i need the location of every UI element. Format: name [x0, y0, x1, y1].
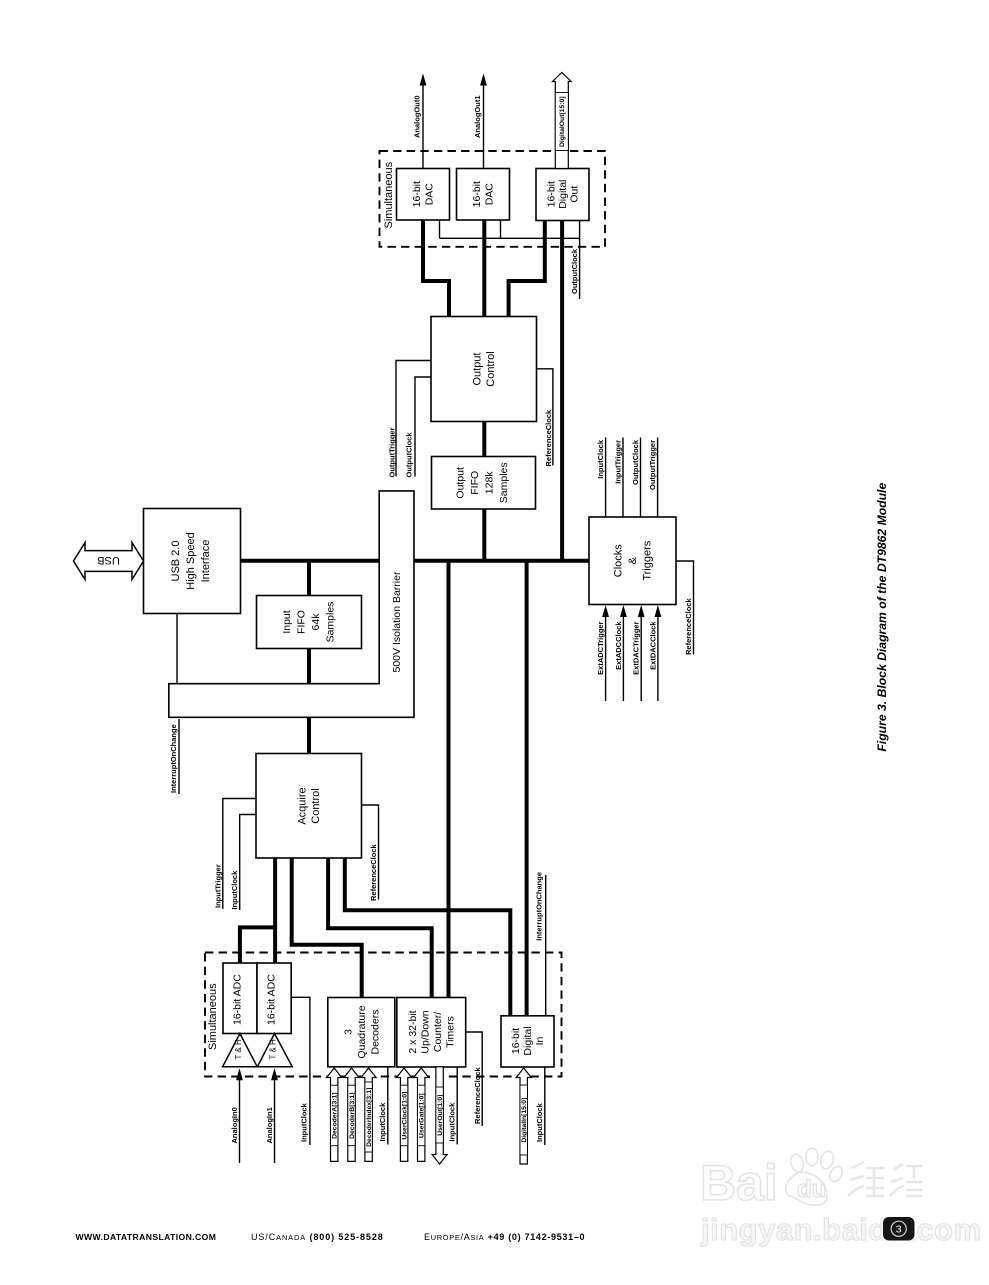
svg-text:Bai: Bai: [700, 1155, 778, 1211]
wire main bus to Input FIFO (thick): [307, 561, 311, 596]
svg-text:DigitalOut[15:0]: DigitalOut[15:0]: [559, 96, 566, 147]
arrow ExtDACClock into Clocks: [655, 605, 662, 701]
wire Acquire Control to Quadrature Decoders (thick): [292, 858, 362, 998]
svg-text:High Speed: High Speed: [185, 532, 197, 590]
svg-text:AnalogOut0: AnalogOut0: [413, 96, 422, 139]
label OutputClock left of Output Control: [405, 432, 414, 478]
block 16-bit Digital Out: [536, 169, 589, 221]
wire main bus to Digital In (thick): [525, 561, 529, 1016]
svg-text:16-bit ADC: 16-bit ADC: [266, 974, 278, 1025]
wire USB interface to isolation barrier (InterruptOnChange): [176, 614, 178, 684]
block USB 2.0 High Speed Interface: [144, 509, 241, 614]
block 16-bit ADC #1: [223, 963, 257, 1034]
wire InputTrigger stub from Acquire Control: [223, 799, 256, 909]
svg-text:InputClock: InputClock: [596, 439, 605, 479]
svg-text:ReferenceClock: ReferenceClock: [544, 409, 553, 467]
svg-text:EUROPE/ASIA +49 (0) 7142-9531–: EUROPE/ASIA +49 (0) 7142-9531–0: [424, 1232, 585, 1242]
wire InterruptOnChange stub below barrier: [178, 719, 180, 794]
label AnalogOut0: [413, 96, 422, 139]
label ReferenceClock right of Clocks: [684, 597, 693, 655]
footer Europe/Asia phone: [424, 1232, 585, 1242]
svg-text:InputClock: InputClock: [300, 1102, 309, 1142]
svg-text:ReferenceClock: ReferenceClock: [684, 597, 693, 655]
svg-text:Timers: Timers: [445, 1016, 457, 1048]
arrow ExtDACTrigger into Clocks: [638, 605, 645, 701]
label InterruptOnChange near Digital In: [535, 872, 544, 941]
svg-text:128k: 128k: [484, 471, 496, 495]
label AnalogIn0: [230, 1107, 239, 1143]
svg-text:UserGate[1:0]: UserGate[1:0]: [419, 1093, 426, 1138]
svg-text:Interface: Interface: [200, 540, 212, 583]
wire Acquire Control to ADC0 (thick): [273, 858, 277, 963]
svg-text:OutputClock: OutputClock: [405, 432, 414, 478]
arrow AnalogOut0: [420, 74, 427, 169]
svg-text:DigitalIn[15:0]: DigitalIn[15:0]: [521, 1098, 528, 1143]
svg-text:OutputClock: OutputClock: [570, 248, 579, 294]
wire Digital Out to main bus (thick): [560, 220, 564, 561]
svg-text:3: 3: [342, 1029, 354, 1035]
svg-text:UserOut[1:0]: UserOut[1:0]: [437, 1095, 444, 1136]
block Acquire Control: [256, 754, 362, 859]
label InputClock left of Acquire Control: [230, 870, 239, 910]
label OutputTrigger left of Output Control: [388, 427, 397, 477]
wire main bus USB to Clocks and Triggers (thick): [241, 559, 590, 563]
svg-text:16-bit: 16-bit: [510, 1028, 522, 1054]
svg-text:Quadrature: Quadrature: [356, 1005, 368, 1058]
wire InputClock stub below Quadrature Decoders: [387, 1067, 389, 1145]
svg-text:USB 2.0: USB 2.0: [170, 541, 182, 582]
wire InputClock stub above Clocks: [605, 438, 607, 518]
label InputClock below Counter Timers: [448, 1102, 457, 1142]
label AnalogIn1: [265, 1107, 274, 1143]
svg-text:ExtDACClock: ExtDACClock: [648, 621, 657, 670]
svg-text:3: 3: [896, 1224, 902, 1236]
label OutputClock above Clocks: [631, 439, 640, 485]
wire DAC1 to Output Control (thick elbow): [423, 220, 449, 317]
wire OutputClock stub from Output Control: [415, 377, 431, 477]
wire Acquire Control to Digital In (thick): [345, 858, 511, 1016]
wire Acquire Control to ADC1 (thick elbow): [240, 925, 275, 963]
watermark baidu jingyan: [700, 1148, 982, 1247]
svg-text:AnalogIn0: AnalogIn0: [230, 1107, 239, 1143]
svg-text:&: &: [627, 556, 639, 564]
svg-text:16-bit: 16-bit: [471, 181, 483, 207]
svg-text:ExtADCClock: ExtADCClock: [614, 621, 623, 670]
svg-text:ExtDACTrigger: ExtDACTrigger: [632, 621, 641, 674]
label InputTrigger above Clocks: [614, 440, 623, 484]
svg-text:InputClock: InputClock: [378, 1102, 387, 1142]
svg-text:InterruptOnChange: InterruptOnChange: [535, 872, 544, 941]
svg-text:Clocks: Clocks: [613, 544, 625, 578]
svg-text:16-bit: 16-bit: [411, 181, 423, 207]
svg-text:In: In: [534, 1036, 546, 1045]
svg-text:FIFO: FIFO: [469, 471, 481, 495]
svg-text:Output: Output: [455, 467, 467, 499]
svg-text:Decoders: Decoders: [369, 1010, 381, 1055]
bus arrow DecoderB[3:1]: [344, 1068, 359, 1161]
svg-text:InputClock: InputClock: [535, 1102, 544, 1142]
svg-text:FIFO: FIFO: [296, 610, 308, 634]
wire Output Control to Output FIFO (thick): [482, 422, 486, 457]
wire Acquire Control to Counter Timers (thick): [328, 858, 432, 998]
svg-text:Out: Out: [569, 186, 581, 203]
wire InputClock stub from ADC: [291, 997, 310, 1145]
svg-text:InterruptOnChange: InterruptOnChange: [169, 724, 178, 793]
block Output FIFO 128k Samples: [432, 457, 536, 510]
svg-text:ExtADCTrigger: ExtADCTrigger: [596, 621, 605, 674]
dashed box Simultaneous (input section): [205, 953, 562, 1077]
svg-text:2 x 32-bit: 2 x 32-bit: [407, 1010, 419, 1053]
svg-text:Triggers: Triggers: [642, 540, 654, 580]
block Input FIFO 64k Samples: [257, 596, 362, 649]
svg-text:ReferenceClock: ReferenceClock: [369, 843, 378, 901]
svg-text:Simultaneous: Simultaneous: [383, 161, 395, 228]
wire ReferenceClock stub from Clocks and Triggers: [676, 561, 694, 655]
svg-text:T & H: T & H: [268, 1039, 277, 1060]
label AnalogOut1: [473, 96, 482, 139]
amplifier T and H #2: [257, 1034, 292, 1067]
wire OutputTrigger stub above Clocks: [657, 438, 659, 518]
block 16-bit ADC #2: [257, 963, 291, 1034]
arrow ExtADCTrigger into Clocks: [602, 605, 609, 701]
svg-text:DecoderA[3:1]: DecoderA[3:1]: [332, 1092, 339, 1138]
block 16-bit DAC #1: [397, 169, 450, 221]
wire InputClock stub from Acquire Control: [240, 815, 256, 911]
svg-text:WWW.DATATRANSLATION.COM: WWW.DATATRANSLATION.COM: [76, 1232, 217, 1242]
label ExtDACTrigger: [632, 621, 641, 674]
svg-text:Up/Down: Up/Down: [420, 1010, 432, 1053]
svg-text:Samples: Samples: [325, 602, 337, 643]
label InputClock below ADC: [300, 1102, 309, 1142]
svg-text:64k: 64k: [310, 613, 322, 631]
block 2 x 32-bit Up/Down Counter/Timers: [397, 998, 466, 1068]
svg-text:Digital: Digital: [522, 1026, 534, 1055]
svg-text:OutputTrigger: OutputTrigger: [648, 440, 657, 490]
badge page number 3: [883, 1217, 915, 1241]
wire InputTrigger stub above Clocks: [622, 438, 624, 518]
dashed box Simultaneous (output section): [380, 151, 606, 247]
label ReferenceClock right of Acquire Control: [369, 843, 378, 901]
label Simultaneous (output section): [383, 161, 395, 228]
label ReferenceClock bottom: [473, 1066, 482, 1124]
bus arrow UserGate[1:0]: [414, 1068, 429, 1161]
svg-text:DecoderIndex[3:1]: DecoderIndex[3:1]: [366, 1088, 373, 1147]
wire DAC2 to Output Control (thick): [482, 220, 486, 317]
svg-text:16-bit ADC: 16-bit ADC: [232, 974, 244, 1025]
wire main bus to Counter Timers (thick): [447, 561, 451, 998]
svg-text:UserClock[1:0]: UserClock[1:0]: [402, 1092, 409, 1140]
wire InputClock stub below Digital In: [544, 1067, 546, 1145]
label InputClock below Quadrature Decoders: [378, 1102, 387, 1142]
label OutputClock near Digital Out: [570, 248, 579, 294]
svg-text:DAC: DAC: [484, 183, 496, 206]
wire OutputClock net (DAC stubs to Digital Out stub): [440, 220, 580, 299]
bus arrow DigitalOut[15:0]: [553, 73, 572, 169]
wire OutputClock stub above Clocks: [640, 438, 642, 518]
svg-text:InputTrigger: InputTrigger: [614, 440, 623, 484]
svg-text:Figure 3. Block Diagram of the: Figure 3. Block Diagram of the DT9862 Mo…: [875, 483, 889, 752]
svg-text:USB: USB: [97, 554, 120, 566]
block 500V Isolation Barrier (L-shape): [169, 491, 414, 717]
label ExtDACClock: [648, 621, 657, 670]
wire Input FIFO to Acquire Control (thick): [307, 649, 311, 754]
svg-text:jingyan.baidu.com: jingyan.baidu.com: [700, 1212, 982, 1247]
wire InputClock stub below Counter Timers: [456, 1067, 458, 1145]
svg-text:AnalogIn1: AnalogIn1: [265, 1107, 274, 1143]
arrow AnalogOut1: [480, 74, 487, 169]
wire InterruptOnChange stub from Digital In: [545, 875, 547, 1016]
svg-text:AnalogOut1: AnalogOut1: [473, 96, 482, 139]
wire OutputTrigger stub from Output Control: [396, 361, 431, 477]
label InputClock above Clocks: [596, 439, 605, 479]
bus arrow DecoderA[3:1]: [327, 1068, 342, 1161]
block 16-bit DAC #2: [457, 169, 510, 221]
label InputClock below Digital In: [535, 1102, 544, 1142]
svg-text:Acquire: Acquire: [297, 787, 309, 824]
svg-text:Digital: Digital: [557, 180, 569, 209]
svg-text:Samples: Samples: [498, 462, 510, 503]
svg-text:OutputClock: OutputClock: [631, 439, 640, 485]
wire Digital Out to Output Control (thick elbow): [509, 220, 545, 317]
svg-text:US/CANADA (800) 525-8528: US/CANADA (800) 525-8528: [251, 1232, 384, 1242]
svg-text:du: du: [797, 1176, 826, 1203]
label ReferenceClock right of Output Control: [544, 409, 553, 467]
bus arrow UserClock[1:0]: [397, 1068, 412, 1161]
caption Figure 3: [875, 483, 889, 752]
bus arrow UserOut[1:0] (output, points down): [432, 1067, 447, 1164]
wire ReferenceClock stub from Acquire Control: [362, 805, 379, 900]
svg-text:500V Isolation Barrier: 500V Isolation Barrier: [391, 571, 403, 672]
amplifier T and H #1: [223, 1034, 258, 1067]
footer website: [76, 1232, 217, 1242]
block Output Control: [431, 317, 537, 422]
label OutputTrigger above Clocks: [648, 440, 657, 490]
label InputTrigger left of Acquire Control: [214, 864, 223, 908]
svg-text:DAC: DAC: [424, 183, 436, 206]
label ExtADCTrigger: [596, 621, 605, 674]
svg-text:T & H: T & H: [234, 1039, 243, 1060]
label ExtADCClock: [614, 621, 623, 670]
arrow AnalogIn0: [236, 1068, 243, 1163]
block 16-bit Digital In: [501, 1016, 554, 1067]
bus arrow DigitalIn[15:0]: [516, 1068, 531, 1164]
label InterruptOnChange left: [169, 724, 178, 793]
svg-text:Counter/: Counter/: [432, 1012, 444, 1052]
bus arrow DecoderIndex[3:1]: [361, 1068, 376, 1161]
arrow ExtADCClock into Clocks: [620, 605, 627, 701]
svg-text:InputClock: InputClock: [230, 870, 239, 910]
block 3 Quadrature Decoders: [328, 998, 395, 1067]
svg-text:Simultaneous: Simultaneous: [207, 983, 219, 1050]
svg-text:Control: Control: [310, 788, 322, 823]
svg-text:Input: Input: [281, 610, 293, 633]
svg-text:ReferenceClock: ReferenceClock: [473, 1066, 482, 1124]
wire Output FIFO to main bus (thick): [482, 509, 486, 561]
svg-text:Control: Control: [485, 351, 497, 386]
svg-text:16-bit: 16-bit: [546, 181, 558, 207]
arrow AnalogIn1: [271, 1068, 278, 1163]
svg-text:DecoderB[3:1]: DecoderB[3:1]: [349, 1092, 356, 1138]
block Clocks and Triggers: [589, 517, 676, 605]
footer US/Canada phone: [251, 1232, 384, 1242]
svg-text:Output: Output: [472, 352, 484, 385]
label Simultaneous (input section): [207, 983, 219, 1050]
svg-text:InputTrigger: InputTrigger: [214, 864, 223, 908]
wire ReferenceClock stub from Output Control: [537, 369, 553, 466]
connector USB double arrow: [74, 543, 144, 580]
svg-text:OutputTrigger: OutputTrigger: [388, 427, 397, 477]
svg-text:InputClock: InputClock: [448, 1102, 457, 1142]
wire ReferenceClock stub from Counter Timers: [466, 1032, 483, 1126]
